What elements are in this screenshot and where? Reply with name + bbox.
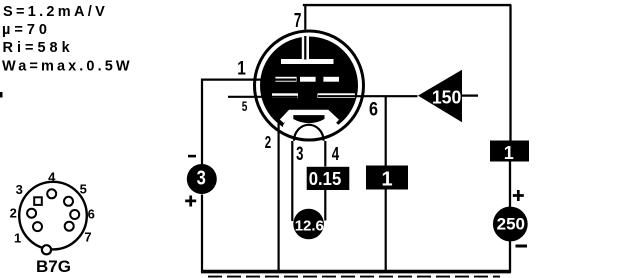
wire bottom rail	[201, 270, 511, 274]
tube V1 envelope fill	[253, 30, 365, 142]
svg-text:S=1.2mA/V: S=1.2mA/V	[3, 4, 108, 20]
B7G pin 1	[33, 222, 42, 231]
B7G pin 3 (square)	[34, 197, 42, 205]
wire pin4 (heater) down to meter 0.15	[324, 141, 326, 167]
svg-text:4: 4	[332, 144, 339, 164]
minus sign above battery 3	[188, 155, 196, 158]
white keepout around pin7 lead	[302, 36, 309, 59]
svg-text:3: 3	[16, 182, 23, 197]
svg-text:Wa=max.0.5W: Wa=max.0.5W	[2, 59, 133, 75]
tube V1 envelope outline	[255, 31, 364, 140]
wire right column HT	[509, 5, 512, 273]
svg-text:0.15: 0.15	[309, 168, 342, 189]
svg-text:B7G: B7G	[36, 257, 71, 276]
plus sign below battery 3	[185, 196, 196, 207]
B7G base notch	[42, 245, 51, 254]
scan artifact dashes under rail	[208, 276, 500, 278]
wire pin3 (heater) down to 12.6 supply	[291, 141, 293, 221]
black strip between cathode and heater	[293, 115, 324, 124]
B7G base outline	[19, 182, 87, 250]
minus sign below supply 250	[516, 245, 528, 248]
heater supply 12.6V	[293, 209, 324, 240]
svg-text:1: 1	[14, 231, 21, 246]
svg-text:3: 3	[296, 144, 303, 165]
svg-text:12.6: 12.6	[295, 218, 324, 235]
wire meter 1 to rail	[385, 190, 387, 273]
pin7 lead inside tube	[304, 36, 306, 60]
svg-text:3: 3	[197, 168, 206, 190]
wire anode branch down to meter 1	[385, 96, 387, 166]
B7G pin 4	[47, 189, 56, 198]
svg-text:6: 6	[88, 206, 95, 221]
svg-text:1: 1	[381, 169, 392, 191]
wire pin7 lead	[304, 4, 306, 59]
heater dome arc	[294, 125, 324, 141]
tube V1 electrode assembly (black blob)	[260, 37, 358, 135]
svg-text:1: 1	[504, 143, 514, 163]
B7G pin 2	[27, 209, 36, 218]
wire pin6 (anode) to output arrow	[318, 95, 418, 97]
grid row 1 dashes	[275, 77, 296, 82]
plus sign above supply 250	[513, 190, 524, 201]
svg-text:7: 7	[294, 10, 302, 32]
B7G pin 5	[64, 197, 73, 206]
HT supply 250V	[493, 207, 528, 242]
wire pin2 (cathode) down to rail	[278, 122, 280, 273]
wire top rail from pin7 to HT+	[303, 4, 512, 6]
svg-text:6: 6	[369, 99, 378, 121]
white area below cathode	[283, 115, 338, 142]
B7G pin 7	[65, 222, 74, 231]
wire pin1 (grid) to left column	[202, 78, 296, 80]
meter 1 (HT current)	[490, 141, 529, 162]
svg-text:2: 2	[10, 206, 17, 221]
wire meter 0.15 to 12.6 supply	[324, 189, 326, 221]
wire left column (grid bias)	[201, 79, 203, 273]
svg-text:1: 1	[237, 58, 246, 80]
output arrow (signal 150)	[418, 70, 462, 123]
battery B1 3V	[187, 164, 217, 194]
svg-text:Ri=58k: Ri=58k	[3, 40, 74, 56]
svg-text:2: 2	[265, 132, 272, 152]
grid row 2 dashes	[272, 93, 298, 98]
svg-text:5: 5	[242, 99, 248, 114]
wire output stub	[462, 94, 478, 96]
wire pin5 stub	[228, 96, 298, 98]
B7G pin 6	[70, 210, 79, 219]
svg-text:250: 250	[497, 215, 525, 234]
svg-text:4: 4	[48, 169, 56, 184]
cathode (white band)	[282, 112, 337, 121]
svg-text:150: 150	[432, 87, 462, 108]
meter 1 mA (anode current)	[366, 166, 408, 190]
meter 0.15 A (heater current)	[307, 167, 350, 190]
svg-text:7: 7	[84, 230, 91, 245]
anode plate (white bar)	[281, 59, 334, 64]
svg-text:5: 5	[80, 182, 87, 197]
scan artifact left edge	[0, 92, 3, 98]
svg-text:µ=70: µ=70	[2, 22, 51, 38]
